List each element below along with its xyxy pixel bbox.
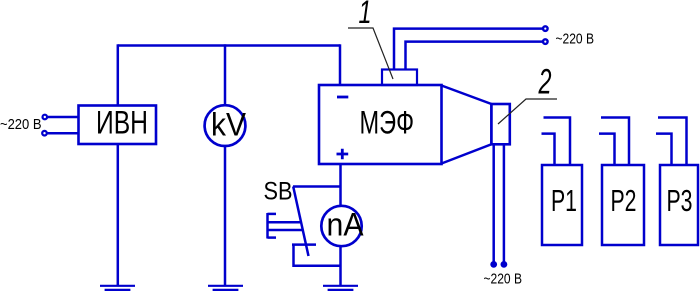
designator kV <box>211 107 247 143</box>
designator Р1 <box>551 183 577 218</box>
leader line for label 2 <box>498 99 557 124</box>
label 2 (collector electrode) <box>538 63 552 102</box>
svg-text:2: 2 <box>538 63 552 102</box>
designator Р2 <box>611 183 637 218</box>
wire IVN bottom to ground <box>117 144 120 286</box>
sampler Р2 box <box>602 165 644 245</box>
ground under kV <box>208 286 243 290</box>
terminal circles ~220V bottom <box>490 261 507 268</box>
power unit ИВН <box>79 106 157 145</box>
sampler Р3 pins <box>656 118 687 166</box>
designator ИВН <box>96 104 148 140</box>
value label ~220 V top right <box>556 30 595 47</box>
wire electrode 2 to bottom terminals <box>494 144 504 262</box>
collector electrode box 2 <box>491 104 509 144</box>
minus terminal mark in МЭФ <box>337 96 348 99</box>
svg-text:SB: SB <box>264 177 293 205</box>
wire bus to kV top <box>224 44 227 106</box>
designator SB <box>264 177 293 205</box>
svg-text:~220 В: ~220 В <box>0 116 42 133</box>
wire junction to switch top <box>293 185 341 188</box>
wire nA bottom to ground <box>339 246 342 286</box>
designator МЭФ <box>360 104 415 140</box>
wire MEF bottom to SB/nA junction <box>339 164 342 207</box>
svg-text:Р3: Р3 <box>667 183 693 218</box>
terminal circles ~220V top right <box>543 26 548 44</box>
svg-text:МЭФ: МЭФ <box>360 104 415 140</box>
label 1 (corona electrode) <box>359 0 372 30</box>
ground under IVN <box>100 286 135 290</box>
svg-text:Р2: Р2 <box>611 183 637 218</box>
wire bus to IVN top <box>117 44 120 106</box>
value label ~220 V bottom <box>484 271 523 288</box>
switch SB actuator <box>268 213 303 239</box>
wire kV bottom to ground <box>224 146 227 286</box>
ground under nA <box>323 286 358 290</box>
nanoammeter nA circle <box>321 206 361 246</box>
sampler Р1 box <box>542 165 582 245</box>
electrofilter МЭФ body <box>319 85 442 164</box>
switch SB blade <box>293 187 308 257</box>
kilovoltmeter kV circle <box>205 105 246 146</box>
switch SB bottom contact tick <box>292 243 316 246</box>
designator nA <box>327 207 365 243</box>
wire electrode box to top-right terminal 2 <box>406 42 543 70</box>
wire electrode box to top-right terminal 1 <box>394 29 543 70</box>
svg-text:1: 1 <box>359 0 372 30</box>
designator Р3 <box>667 183 693 218</box>
sampler Р1 pins <box>542 118 571 166</box>
sampler Р2 pins <box>599 118 629 166</box>
svg-text:~220 В: ~220 В <box>484 271 523 288</box>
svg-text:nA: nA <box>327 207 365 243</box>
funnel trapezoid of МЭФ <box>442 86 492 164</box>
input terminal circles ~220V left <box>42 115 47 136</box>
wire input terminals to IVN <box>48 117 79 133</box>
svg-text:ИВН: ИВН <box>96 104 148 140</box>
value label ~220 V left <box>0 116 42 133</box>
svg-text:kV: kV <box>211 107 247 143</box>
wire bus to MEF top <box>339 44 342 85</box>
svg-text:~220 В: ~220 В <box>556 30 595 47</box>
wire switch bottom contact to nA bottom <box>294 245 341 266</box>
svg-text:Р1: Р1 <box>551 183 577 218</box>
plus terminal mark in МЭФ <box>337 149 349 160</box>
leader line for label 1 <box>348 28 393 79</box>
corona electrode box 1 on top of МЭФ <box>382 70 417 86</box>
sampler Р3 box <box>660 165 698 245</box>
wire top bus <box>118 44 340 47</box>
